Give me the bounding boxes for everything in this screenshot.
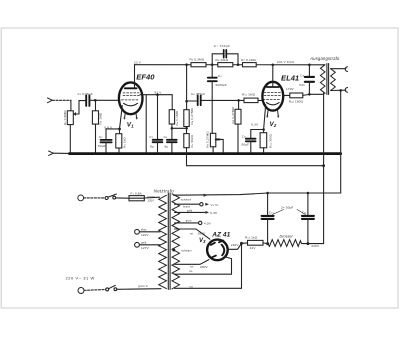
node screen junction	[156, 93, 159, 96]
wire secondary top to speaker	[331, 68, 346, 70]
svg-text:23 V: 23 V	[134, 61, 142, 65]
ground bus	[69, 152, 340, 155]
node cathode junction V1	[118, 128, 121, 131]
node input top terminal	[48, 98, 53, 103]
wire screen cap branch	[157, 95, 159, 140]
capacitor C9	[308, 65, 310, 76]
resistor R9	[238, 100, 240, 109]
svg-text:EF40: EF40	[136, 73, 155, 82]
wire screen V2	[283, 94, 290, 96]
output transformer primary	[320, 65, 325, 93]
wire secondary return to bus	[340, 90, 342, 152]
svg-text:170V: 170V	[286, 87, 295, 91]
node filter ground b	[266, 192, 269, 195]
svg-text:127V: 127V	[141, 246, 150, 250]
resistor R10	[244, 98, 258, 103]
resistor R13	[248, 240, 264, 245]
node secondary return	[339, 89, 342, 92]
svg-text:V3: V3	[199, 238, 206, 244]
svg-text:rot: rot	[190, 265, 194, 269]
svg-text:schwarz: schwarz	[181, 197, 192, 201]
resistor R11	[263, 130, 265, 133]
potentiometer tone	[210, 133, 215, 147]
primary tap 127V	[135, 242, 140, 247]
wire cathode V2 down	[264, 105, 266, 130]
resistor Rg2	[290, 93, 303, 98]
capacitor C10	[267, 193, 269, 215]
wire Rc to sub-bus	[186, 148, 188, 166]
svg-text:blau: blau	[141, 228, 147, 232]
mains terminal bottom	[78, 288, 84, 294]
grids V2	[263, 93, 281, 100]
capacitor C8	[251, 130, 264, 139]
node rectifier output	[240, 242, 243, 245]
svg-text:220V: 220V	[311, 244, 320, 248]
svg-text:6,3V: 6,3V	[210, 211, 218, 215]
node cathode V2 junction	[262, 128, 265, 131]
svg-text:Drossel: Drossel	[280, 234, 293, 238]
svg-text:C7 700pF: C7 700pF	[214, 44, 231, 48]
node rail junction e	[308, 64, 311, 67]
node filter ground a	[307, 192, 310, 195]
resistor Ra	[169, 110, 174, 124]
node rail junction c	[237, 63, 240, 66]
svg-text:0,8 V: 0,8 V	[104, 125, 113, 129]
svg-text:R11 300Ω: R11 300Ω	[268, 133, 272, 148]
resistor R6 on rail	[218, 63, 233, 67]
rectifier V3 AZ41 envelope	[207, 240, 228, 261]
svg-text:R1 0,5MΩ: R1 0,5MΩ	[63, 110, 67, 125]
node grid junction	[94, 99, 97, 102]
wire rail to divider	[186, 65, 188, 110]
node HV centre tap	[172, 249, 175, 252]
wire bus end to filter ground	[174, 154, 341, 196]
node rail junction a	[185, 63, 188, 66]
svg-text:R13 1kΩ: R13 1kΩ	[245, 235, 258, 239]
output transformer secondary	[331, 69, 336, 91]
capacitor C4	[171, 129, 173, 139]
svg-text:300V: 300V	[200, 265, 209, 269]
svg-text:53n: 53n	[299, 83, 305, 87]
wire to C6	[187, 100, 197, 102]
node HT a	[266, 242, 269, 245]
svg-text:F1 0,8A: F1 0,8A	[131, 191, 143, 195]
svg-text:braun: braun	[148, 194, 156, 198]
svg-text:110V: 110V	[141, 233, 149, 237]
mains transformer primary	[159, 195, 167, 288]
node anode line junction	[185, 100, 188, 103]
filament crescent V3	[222, 245, 225, 256]
node rail junction d	[272, 64, 275, 67]
svg-text:V2: V2	[270, 121, 277, 128]
wire anode1 tap	[175, 229, 210, 239]
svg-text:rot: rot	[189, 269, 193, 273]
speaker terminal top	[345, 67, 347, 72]
wire fuse to primary	[144, 196, 159, 199]
resistor R5 on rail	[191, 63, 206, 67]
svg-text:R7 0,1MΩ: R7 0,1MΩ	[241, 58, 256, 62]
svg-text:R5 0,3MΩ: R5 0,3MΩ	[190, 57, 205, 61]
wire to switch bottom	[84, 289, 106, 292]
wire filament return 2	[175, 243, 242, 288]
svg-text:231 V Klirrf.: 231 V Klirrf.	[277, 60, 295, 64]
wire to fuse	[116, 197, 129, 199]
wire pot bottom to ground bus	[69, 125, 71, 153]
svg-text:8µ: 8µ	[165, 145, 169, 149]
mains transformer core	[168, 193, 170, 289]
svg-text:6,3V: 6,3V	[251, 123, 259, 127]
wire C6 to R10	[202, 99, 244, 101]
secondary tap heater V1V2	[175, 203, 200, 205]
svg-text:EL41: EL41	[281, 74, 299, 83]
resistor R2	[95, 100, 97, 111]
svg-text:grün: grün	[186, 219, 192, 223]
wire B+ feed vertical	[323, 94, 325, 243]
svg-text:V1: V1	[127, 122, 134, 129]
svg-text:C6 |M5µF: C6 |M5µF	[191, 92, 205, 96]
svg-text:Ra 0,1MΩ: Ra 0,1MΩ	[175, 110, 179, 125]
capacitor C3	[153, 140, 163, 142]
svg-text:44V: 44V	[250, 246, 257, 250]
svg-text:Netztrafo: Netztrafo	[154, 189, 174, 194]
wire rail to tone branch	[211, 65, 213, 78]
secondary tap heater common	[175, 194, 177, 196]
svg-text:gelb: gelb	[141, 241, 147, 245]
wire screen grid V1	[140, 95, 172, 110]
svg-text:schwarz: schwarz	[181, 249, 192, 253]
primary tap 110V	[135, 229, 140, 234]
capacitor C1	[86, 95, 89, 106]
wire secondary bottom	[331, 89, 346, 91]
svg-text:AZ 41: AZ 41	[211, 231, 230, 238]
resistor Rc	[186, 128, 188, 133]
mains terminal top	[78, 195, 84, 201]
svg-text:R6 44kΩ: R6 44kΩ	[216, 58, 229, 62]
grids V1	[122, 93, 140, 100]
wire to bus	[53, 152, 69, 154]
resistor R3	[119, 129, 121, 134]
svg-text:81 V: 81 V	[155, 90, 163, 94]
svg-text:220V: 220V	[148, 198, 155, 202]
svg-text:R10 1MΩ: R10 1MΩ	[242, 92, 256, 96]
svg-text:grün 0: grün 0	[138, 284, 148, 288]
svg-text:rot: rot	[190, 285, 194, 289]
svg-text:Ausgangstrafo: Ausgangstrafo	[309, 56, 340, 61]
svg-text:4,0V: 4,0V	[204, 221, 212, 225]
svg-text:gelb: gelb	[187, 209, 193, 213]
heater pins V1	[125, 113, 137, 118]
output transformer core	[327, 64, 329, 95]
svg-text:C1 0,05µF: C1 0,05µF	[78, 92, 93, 96]
svg-text:braun: braun	[183, 205, 191, 209]
heater pins V2	[267, 111, 278, 117]
svg-text:5000pF: 5000pF	[216, 83, 227, 87]
switch bottom	[106, 288, 109, 291]
speaker terminal bottom	[345, 88, 347, 93]
node divider right	[185, 127, 188, 130]
wire cathode V1 down	[120, 106, 123, 129]
anode bars V3	[211, 241, 223, 258]
tube V2 EL41 envelope	[262, 82, 283, 111]
svg-text:2× 50µF: 2× 50µF	[281, 205, 294, 209]
B+ rail	[135, 64, 324, 66]
node input bottom terminal	[49, 151, 54, 155]
svg-text:220 V~ 31 W: 220 V~ 31 W	[66, 275, 95, 280]
anode bar V2	[267, 86, 279, 88]
wire divider node	[172, 127, 187, 129]
capacitor C11	[307, 193, 309, 215]
svg-text:260V: 260V	[198, 232, 207, 236]
svg-text:Rg2 180Ω: Rg2 180Ω	[289, 100, 304, 104]
wiper of R1	[75, 101, 85, 114]
wire HT to B+ feed	[308, 243, 324, 245]
fuse F1	[129, 196, 144, 201]
wiper tone pot	[216, 138, 220, 140]
capacitor C7 bridge	[212, 54, 238, 65]
node divider left	[171, 127, 174, 130]
wire anode2 tap	[175, 260, 209, 265]
potentiometer R1	[67, 111, 73, 125]
svg-text:50µF: 50µF	[98, 144, 106, 148]
wire cathode node	[106, 128, 120, 130]
node HT b	[306, 242, 309, 245]
node sub-bus junction	[322, 164, 325, 167]
secondary tap 4V	[175, 222, 199, 224]
wire to switch top	[84, 197, 106, 199]
wire shield to ground	[145, 95, 147, 153]
arrow on ground line	[204, 194, 208, 197]
svg-text:Rc 30kΩ: Rc 30kΩ	[190, 134, 194, 147]
cathode V2	[267, 103, 280, 105]
node grid V2 junction	[237, 99, 240, 102]
node rail junction b	[211, 63, 214, 66]
choke Drossel	[268, 240, 308, 247]
svg-text:50µF: 50µF	[242, 142, 250, 146]
svg-text:R2 1MΩ: R2 1MΩ	[99, 112, 103, 124]
wire C1 to grid V1	[90, 99, 120, 101]
pointer lines 2x50	[273, 210, 306, 215]
capacitor C6	[198, 96, 201, 106]
svg-text:8µ: 8µ	[150, 145, 154, 149]
resistor R7 on rail	[243, 63, 257, 67]
wire input to volume pot	[52, 99, 71, 101]
resistor Rb	[184, 110, 189, 127]
svg-text:230V: 230V	[231, 243, 240, 247]
svg-text:R3 1kΩ: R3 1kΩ	[122, 137, 126, 148]
anode bar V1	[125, 87, 137, 89]
sub-bus wire	[187, 165, 324, 167]
wire filament return 1	[175, 257, 232, 275]
node C9 bottom	[308, 93, 311, 96]
wire anode V1 to rail	[134, 65, 136, 89]
svg-text:rot: rot	[190, 232, 194, 236]
wire cathode to R13	[228, 243, 242, 249]
capacitor C5	[208, 78, 217, 82]
mains transformer secondary	[172, 194, 180, 289]
secondary tap 6,3V	[175, 211, 205, 213]
capacitor C2	[105, 129, 107, 140]
wire switch to primary bottom	[117, 288, 161, 291]
wire anode V2 to rail	[272, 65, 274, 87]
cathode V1	[124, 103, 138, 106]
tube V1 EF40 envelope	[119, 82, 143, 114]
switch top	[105, 197, 108, 200]
